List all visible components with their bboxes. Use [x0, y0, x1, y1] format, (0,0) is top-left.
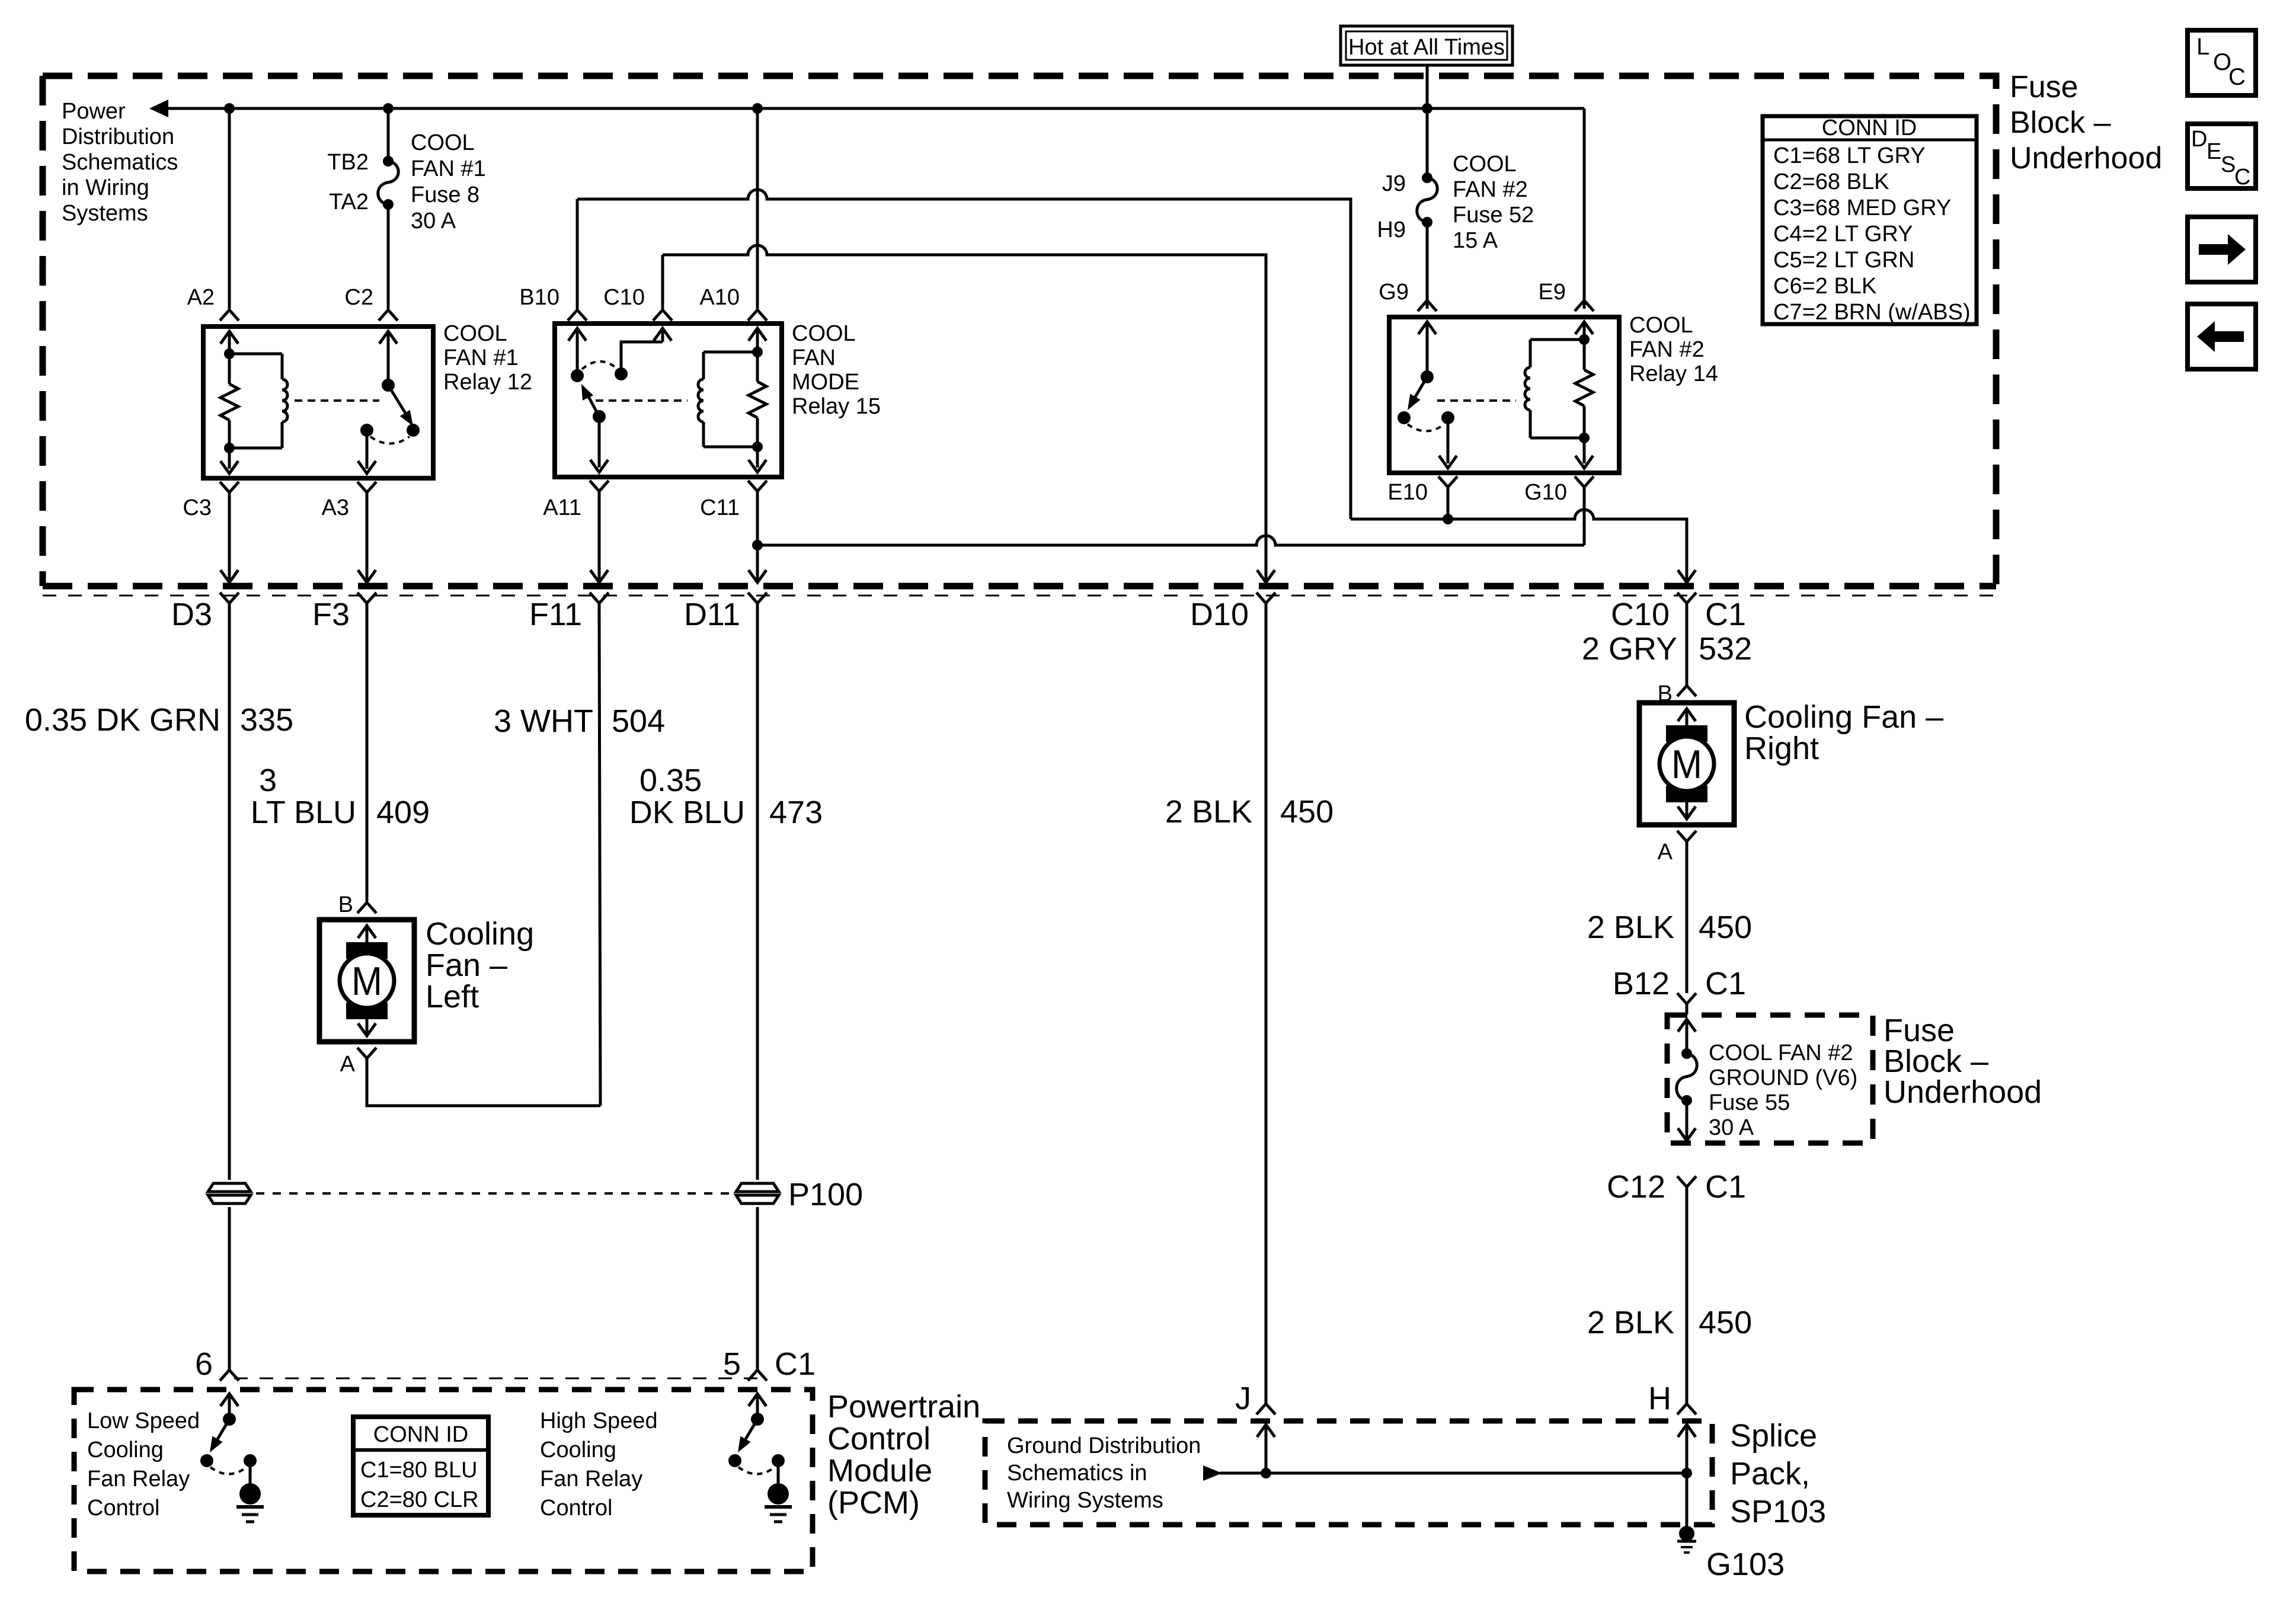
svg-text:532: 532	[1699, 631, 1752, 667]
svg-text:F11: F11	[529, 597, 582, 632]
svg-text:Fuse 8: Fuse 8	[411, 183, 479, 207]
relay 15 C11 terminal arrow	[756, 447, 759, 468]
svg-text:LT BLU: LT BLU	[251, 795, 356, 830]
wire: A2 drop	[228, 108, 231, 309]
powertrain control module dashed box	[74, 1390, 813, 1571]
relay 14 coil-switch dashed link	[1437, 399, 1516, 402]
svg-text:H: H	[1648, 1381, 1671, 1416]
pin C2	[379, 310, 398, 321]
svg-text:2 BLK: 2 BLK	[1587, 1305, 1674, 1340]
svg-text:E10: E10	[1387, 480, 1428, 505]
pin C11	[748, 481, 767, 491]
svg-text:A: A	[1658, 840, 1673, 865]
relay 15 coil-switch dashed link	[596, 399, 687, 402]
svg-text:Cooling: Cooling	[540, 1438, 616, 1462]
relay K12 COOL FAN #1 Relay 12 box	[203, 327, 433, 478]
svg-text:COOL FAN #2: COOL FAN #2	[1709, 1041, 1853, 1065]
fuse F8 COOL FAN #1 Fuse 8 30A	[383, 156, 394, 167]
pin A fan right	[1677, 831, 1696, 841]
relay 12 switch	[387, 331, 390, 385]
svg-text:FAN #2: FAN #2	[1453, 177, 1528, 202]
fuse block underhood dashed box	[43, 76, 1996, 586]
connector P100 on D3 wire	[208, 1183, 251, 1192]
svg-text:Power: Power	[62, 99, 126, 124]
svg-text:Fan Relay: Fan Relay	[87, 1467, 190, 1491]
svg-text:B: B	[338, 892, 353, 917]
relay 14 switch	[1421, 370, 1434, 383]
icon LOC box	[2188, 30, 2256, 95]
svg-text:L: L	[2196, 34, 2209, 60]
arrow at harness edge x=2846	[1678, 570, 1696, 582]
wire: y920 bus C11-G10 with hop over D10	[757, 536, 1584, 545]
svg-text:Fan Relay: Fan Relay	[540, 1467, 642, 1491]
svg-text:FAN #1: FAN #1	[443, 345, 519, 370]
svg-text:Relay 15: Relay 15	[792, 394, 881, 419]
svg-text:Relay 14: Relay 14	[1629, 361, 1718, 386]
pin C10	[653, 310, 672, 321]
svg-text:C3=68 MED GRY: C3=68 MED GRY	[1773, 196, 1951, 220]
svg-text:J9: J9	[1382, 171, 1406, 196]
pin G10	[1575, 476, 1594, 487]
arrow at harness edge x=2136	[1257, 570, 1275, 582]
svg-text:C6=2 BLK: C6=2 BLK	[1773, 274, 1876, 299]
relay 15 coil	[752, 347, 763, 357]
wire: A3 to F3 drop	[366, 503, 369, 580]
svg-text:E: E	[2207, 139, 2221, 164]
relay 12 coil	[229, 353, 282, 356]
svg-text:Schematics: Schematics	[62, 150, 178, 175]
wire: E9 riser	[1583, 108, 1586, 309]
svg-text:TA2: TA2	[329, 190, 369, 215]
svg-text:COOL: COOL	[443, 321, 507, 346]
pin H	[1677, 1404, 1696, 1414]
motor M cooling fan right	[1639, 703, 1734, 825]
svg-text:C7=2 BRN (w/ABS): C7=2 BRN (w/ABS)	[1773, 300, 1971, 325]
svg-text:30 A: 30 A	[1709, 1115, 1754, 1140]
pin A11	[590, 481, 609, 491]
relay 12 internal A2 terminal arrow	[228, 331, 231, 356]
icon back arrow box	[2188, 304, 2256, 369]
svg-text:5: 5	[723, 1346, 741, 1382]
svg-text:Module: Module	[827, 1453, 932, 1489]
svg-text:C5=2 LT GRN: C5=2 LT GRN	[1773, 248, 1914, 273]
svg-text:D10: D10	[1190, 597, 1249, 632]
motor M cooling fan left	[319, 920, 414, 1042]
arrow at harness edge x=1278	[749, 570, 766, 582]
relay K14 COOL FAN #2 Relay 14 box	[1389, 317, 1619, 473]
conn id table pcm	[353, 1417, 488, 1515]
svg-text:H9: H9	[1377, 217, 1406, 242]
wire: P100 dashed link	[256, 1192, 730, 1195]
svg-text:C1: C1	[1705, 1169, 1746, 1205]
svg-text:450: 450	[1280, 794, 1334, 830]
svg-text:J: J	[1235, 1381, 1251, 1416]
wire: C11 to D11 drop	[756, 502, 759, 580]
svg-text:C: C	[2228, 64, 2246, 90]
svg-text:C1=80 BLU: C1=80 BLU	[360, 1458, 478, 1483]
transistor switch low speed fan relay control	[228, 1395, 231, 1419]
pin A2	[220, 310, 239, 321]
svg-text:CONN ID: CONN ID	[373, 1422, 468, 1447]
svg-text:6: 6	[195, 1346, 213, 1382]
svg-text:C1: C1	[1705, 597, 1746, 632]
svg-text:Distribution: Distribution	[62, 124, 174, 149]
svg-text:0.35: 0.35	[639, 763, 702, 798]
relay 15 C10 terminal arrow and step to contact	[661, 328, 664, 342]
svg-text:0.35 DK GRN: 0.35 DK GRN	[25, 702, 220, 738]
pin G9	[1418, 300, 1437, 311]
relay 14 coil	[1579, 334, 1590, 345]
pin B10	[568, 310, 587, 321]
svg-text:Underhood: Underhood	[1884, 1074, 2042, 1110]
svg-text:Systems: Systems	[62, 201, 148, 226]
svg-text:GROUND (V6): GROUND (V6)	[1709, 1065, 1857, 1090]
svg-text:C1: C1	[775, 1346, 816, 1382]
svg-text:C: C	[2234, 165, 2250, 190]
svg-text:A2: A2	[187, 285, 215, 310]
svg-text:473: 473	[769, 795, 823, 830]
svg-text:G103: G103	[1706, 1547, 1785, 1582]
relay 15 coil parallel resistor	[756, 352, 759, 382]
relay 12 switch throw dashed arc	[370, 437, 410, 444]
ground G103	[1679, 1526, 1694, 1541]
arrow to ground distribution	[1203, 1465, 1222, 1481]
pin C3	[220, 482, 239, 492]
svg-text:Left: Left	[426, 979, 479, 1014]
pin D11 connector row	[748, 593, 767, 603]
wire: C3 to D3 drop	[228, 503, 231, 580]
svg-text:Control: Control	[827, 1421, 930, 1457]
svg-text:2 GRY: 2 GRY	[1582, 631, 1677, 667]
relay 14 coil parallel resistor	[1583, 322, 1586, 340]
svg-text:COOL: COOL	[1629, 313, 1693, 338]
fuse block underhood dashed box (fuse 55)	[1667, 1015, 1873, 1143]
relay 12 coil parallel resistor	[224, 348, 235, 359]
svg-text:Fuse: Fuse	[2010, 70, 2078, 104]
relay 15 B10 terminal arrow and fixed contact	[576, 328, 579, 376]
svg-text:C12: C12	[1607, 1169, 1665, 1205]
wire: H to G103	[1686, 1473, 1689, 1528]
pin F3 connector row	[357, 593, 376, 603]
node: splice J junction	[1261, 1468, 1271, 1478]
svg-text:C10: C10	[603, 285, 645, 310]
wire: C2 drop to fuse 8	[387, 108, 390, 161]
svg-text:Block –: Block –	[1884, 1044, 1988, 1079]
conn id table underhood	[1763, 116, 1977, 324]
pin B12 C1	[1677, 993, 1696, 1004]
svg-text:C2: C2	[344, 285, 373, 310]
svg-text:CONN ID: CONN ID	[1822, 116, 1917, 140]
svg-text:Cooling: Cooling	[426, 916, 534, 952]
pin C12 C1	[1677, 1176, 1696, 1187]
svg-text:504: 504	[612, 703, 665, 739]
svg-text:Relay 12: Relay 12	[443, 370, 532, 395]
svg-text:Pack,: Pack,	[1730, 1456, 1810, 1491]
svg-text:G9: G9	[1379, 280, 1409, 305]
pin 5 C1	[748, 1370, 767, 1381]
wire: right column drop to fan right	[1686, 614, 1689, 686]
wire: C10 riser and crossover to D10 drop	[661, 255, 664, 309]
wire: F11 long drop	[599, 614, 600, 1106]
svg-text:3: 3	[259, 763, 277, 798]
svg-text:B12: B12	[1613, 966, 1670, 1001]
svg-text:Hot at All Times: Hot at All Times	[1348, 35, 1505, 60]
connector row thin dashed line	[43, 595, 1996, 597]
arrow at harness edge x=619	[358, 570, 376, 582]
wire: D11 long drop	[756, 614, 759, 1180]
svg-text:S: S	[2221, 152, 2236, 177]
svg-text:Cooling: Cooling	[87, 1438, 164, 1462]
fuse F52 COOL FAN #2 Fuse 52 15A	[1422, 172, 1432, 183]
svg-text:TB2: TB2	[327, 150, 369, 175]
arrow to power distribution	[149, 100, 168, 117]
wire: fuse52 drop	[1426, 108, 1429, 178]
pin A3	[357, 482, 376, 492]
node: splice H junction	[1681, 1468, 1692, 1478]
pin A fan left	[357, 1048, 376, 1058]
splice pack SP103 dashed box	[985, 1421, 1712, 1525]
wire: A11 to F11 drop	[598, 502, 601, 580]
svg-text:COOL: COOL	[411, 130, 475, 155]
svg-text:Underhood: Underhood	[2010, 141, 2162, 175]
icon forward arrow box	[2188, 217, 2256, 282]
pin F11 connector row	[590, 593, 609, 603]
svg-text:Fuse 52: Fuse 52	[1453, 203, 1534, 228]
pcm connector row thin dashed line	[234, 1378, 765, 1379]
node: bus junction hot feed	[1422, 103, 1432, 114]
relay 12 lower terminal arrow C3	[228, 448, 231, 469]
svg-text:MODE: MODE	[792, 370, 859, 395]
fuse F55 COOL FAN #2 GROUND fuse	[1678, 1019, 1696, 1032]
pin J	[1256, 1404, 1275, 1414]
relay 14 G9 terminal arrow	[1426, 322, 1429, 377]
svg-text:COOL: COOL	[792, 321, 856, 346]
svg-text:C2=80 CLR: C2=80 CLR	[360, 1487, 479, 1512]
pin E10	[1438, 476, 1457, 487]
icon DESC box	[2188, 124, 2256, 188]
wire: fan right A to B12	[1686, 852, 1689, 993]
svg-text:G10: G10	[1524, 480, 1567, 505]
wire: y876 bus B10-E10-fanright with hop over G10	[1351, 510, 1687, 580]
pin C10 connector row	[1677, 593, 1696, 603]
svg-text:3 WHT: 3 WHT	[494, 703, 593, 739]
svg-text:450: 450	[1699, 1305, 1752, 1340]
svg-text:Control: Control	[540, 1496, 613, 1521]
svg-text:(PCM): (PCM)	[827, 1485, 920, 1521]
svg-text:Block –: Block –	[2010, 105, 2111, 140]
wire: D10 long drop	[1265, 614, 1268, 1404]
svg-text:Right: Right	[1744, 731, 1819, 766]
svg-text:335: 335	[240, 702, 293, 738]
relay 12 coil-switch dashed link	[295, 399, 379, 402]
svg-text:A: A	[340, 1052, 356, 1077]
svg-text:P100: P100	[788, 1177, 863, 1212]
pin A10	[748, 310, 767, 321]
svg-text:C10: C10	[1611, 597, 1670, 632]
splice pack H terminal arrow	[1686, 1426, 1689, 1473]
arrow at harness edge x=387	[220, 570, 238, 582]
transistor switch high speed fan relay control	[756, 1395, 759, 1419]
svg-text:Fan –: Fan –	[426, 948, 507, 983]
wire: E10 drop to bus y876	[1447, 498, 1450, 519]
wire: hot feed drop	[1426, 65, 1429, 108]
svg-text:Cooling Fan –: Cooling Fan –	[1744, 699, 1943, 735]
wire: top power bus	[155, 107, 1584, 110]
svg-text:A3: A3	[322, 495, 349, 520]
svg-text:SP103: SP103	[1730, 1494, 1826, 1529]
svg-text:Schematics in: Schematics in	[1007, 1461, 1147, 1486]
svg-text:FAN #1: FAN #1	[411, 156, 486, 181]
svg-text:Control: Control	[87, 1496, 160, 1521]
svg-text:Low Speed: Low Speed	[87, 1409, 200, 1433]
wire: D3 long drop	[228, 614, 231, 1180]
svg-text:M: M	[351, 959, 382, 1004]
relay 14 G10 terminal arrow	[1583, 438, 1586, 463]
svg-text:Powertrain: Powertrain	[827, 1389, 980, 1425]
svg-text:450: 450	[1699, 910, 1752, 945]
svg-text:B10: B10	[519, 285, 559, 310]
relay 14 switch throw dashed arc	[1408, 424, 1444, 431]
svg-text:C4=2 LT GRY: C4=2 LT GRY	[1773, 222, 1913, 247]
node: bus junction A10	[752, 103, 763, 114]
svg-text:C1=68 LT GRY: C1=68 LT GRY	[1773, 143, 1926, 168]
pin B fan right	[1677, 686, 1696, 696]
wire: B10 riser and crossover to x2279	[576, 199, 579, 309]
pin D10 connector row	[1256, 593, 1275, 603]
pin D3 connector row	[220, 593, 239, 603]
svg-text:A10: A10	[699, 285, 740, 310]
svg-text:FAN: FAN	[792, 345, 836, 370]
wire: A10 riser	[756, 108, 759, 309]
svg-text:D3: D3	[171, 597, 212, 632]
svg-text:Splice: Splice	[1730, 1418, 1817, 1454]
svg-text:D: D	[2191, 127, 2207, 152]
svg-text:Fuse: Fuse	[1884, 1013, 1955, 1048]
arrow at harness edge x=1011	[590, 570, 608, 582]
svg-text:Wiring Systems: Wiring Systems	[1007, 1488, 1163, 1513]
relay 14 E9 terminal arrow	[1575, 322, 1593, 334]
connector P100 on D11 wire	[736, 1183, 779, 1192]
pin B fan left	[357, 902, 376, 913]
hot at all times box	[1341, 26, 1512, 65]
svg-text:C3: C3	[183, 495, 212, 520]
node: bus junction C2 fuse8	[383, 103, 394, 114]
svg-text:409: 409	[376, 795, 430, 830]
svg-text:30 A: 30 A	[411, 209, 456, 233]
svg-text:A11: A11	[543, 495, 581, 520]
svg-text:D11: D11	[684, 597, 740, 632]
svg-text:DK BLU: DK BLU	[629, 795, 745, 830]
node: bus junction A2	[224, 103, 235, 114]
svg-text:E9: E9	[1539, 280, 1566, 305]
svg-text:C2=68 BLK: C2=68 BLK	[1773, 169, 1889, 194]
svg-text:High Speed: High Speed	[540, 1409, 658, 1433]
svg-text:Fuse 55: Fuse 55	[1709, 1090, 1790, 1115]
node: E10 junction	[1443, 514, 1453, 524]
wire: F3 drop to fan left B	[366, 614, 369, 901]
relay 15 A10 terminal arrow	[756, 328, 759, 352]
svg-text:F3: F3	[312, 597, 350, 632]
svg-text:2 BLK: 2 BLK	[1165, 794, 1252, 830]
wire: C12 to H	[1686, 1198, 1689, 1404]
svg-text:2 BLK: 2 BLK	[1587, 910, 1674, 945]
pin E9	[1575, 300, 1594, 311]
splice pack J terminal arrow	[1265, 1426, 1268, 1473]
svg-text:COOL: COOL	[1453, 152, 1517, 177]
relay 15 switch arm	[593, 410, 606, 423]
wire: splice bus	[1220, 1472, 1687, 1475]
svg-text:Ground Distribution: Ground Distribution	[1007, 1433, 1201, 1458]
relay 15 contact dashed arc	[582, 361, 616, 369]
svg-text:15 A: 15 A	[1453, 228, 1498, 253]
svg-text:FAN #2: FAN #2	[1629, 337, 1705, 362]
wire: G10 drop	[1583, 498, 1586, 545]
wire: fan left A to F11	[367, 1069, 600, 1106]
svg-text:C11: C11	[700, 495, 740, 520]
relay K15 COOL FAN MODE Relay 15 box	[555, 324, 782, 477]
svg-text:in Wiring: in Wiring	[62, 175, 149, 200]
pin 6	[220, 1370, 239, 1381]
node: C11 junction	[752, 540, 763, 550]
svg-text:M: M	[1671, 742, 1702, 787]
svg-text:C1: C1	[1705, 966, 1746, 1001]
